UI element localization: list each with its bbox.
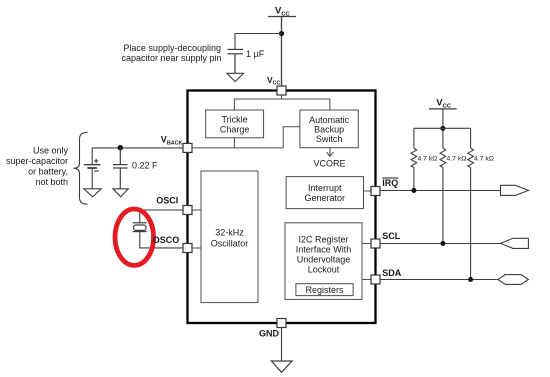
pin OSCI [183,206,192,215]
svg-text:Interface With: Interface With [296,245,352,255]
connector SCL input arrow [501,238,529,248]
crystal Y1 [133,223,147,232]
pin IRQ [371,187,380,196]
svg-text:capacitor near supply pin: capacitor near supply pin [121,53,221,63]
annotation red circle [115,209,154,265]
svg-text:1 µF: 1 µF [246,49,265,59]
svg-text:OSCO: OSCO [153,235,180,245]
svg-text:Registers: Registers [305,285,344,295]
resistor R2 4.7k [440,128,446,243]
block 32-kHz Oscillator [201,171,258,303]
svg-text:IRQ: IRQ [382,178,398,188]
svg-text:SCL: SCL [382,231,401,241]
node VCORE arrow [327,148,334,157]
svg-text:Trickle: Trickle [222,115,248,125]
brace annotation [74,132,88,204]
wire oscillator to OSCO pin [192,247,201,249]
block Automatic Backup Switch [300,110,358,148]
svg-text:4.7 kΩ: 4.7 kΩ [447,156,467,163]
svg-text:or battery,: or battery, [28,167,68,177]
pin GND [277,319,286,328]
ground under battery [84,189,102,197]
wire I2C block to SCL pin [362,243,371,245]
svg-text:Interrupt: Interrupt [308,183,342,193]
wire SDA line [380,279,498,281]
block Registers [296,284,353,296]
svg-text:4.7 kΩ: 4.7 kΩ [418,156,438,163]
wire junction to capacitor C1 [235,34,282,50]
pin SCL [371,239,380,248]
junction dot pull-up bus [440,126,445,131]
resistor R1 4.7k [411,128,417,190]
svg-text:super-capacitor: super-capacitor [6,156,68,166]
connector SDA bidirectional arrow [498,275,529,285]
connector IRQ output arrow [501,185,529,195]
svg-text:Lockout: Lockout [308,265,340,275]
svg-text:Backup: Backup [314,125,344,135]
wire Interrupt Generator to IRQ pin [364,190,372,192]
junction dot SCL/R2 [440,241,445,246]
svg-text:GND: GND [259,328,280,338]
svg-text:not both: not both [35,177,68,187]
svg-text:0.22 F: 0.22 F [132,161,158,171]
svg-text:SDA: SDA [382,268,402,278]
capacitor C1 1uF [228,49,244,73]
ground GND [271,361,292,372]
resistor R3 4.7k [468,128,474,279]
battery B1 [84,148,101,189]
svg-text:Switch: Switch [316,134,343,144]
junction dot SDA/R3 [468,277,473,282]
wire Vcc pin to internal blocks [234,95,281,110]
wire IRQ line [380,190,501,192]
power Vcc top symbol [268,16,296,18]
wire VBACK pin to Automatic Backup Switch [192,127,300,148]
block Interrupt Generator [286,177,363,209]
svg-text:VCORE: VCORE [313,159,345,169]
wire SCL line [380,243,501,245]
svg-text:I2C Register: I2C Register [298,235,348,245]
wire GND pin to ground [281,328,283,362]
ground under C1 [227,73,244,81]
wire oscillator to OSCI pin [192,209,201,211]
svg-text:OSCI: OSCI [156,196,178,206]
svg-text:+: + [94,155,99,165]
power Vcc right symbol [429,108,457,110]
svg-text:−: − [94,166,99,176]
svg-text:Use only: Use only [33,146,69,156]
wire pull-up bus [414,127,471,129]
wire VBACK external [92,147,183,149]
svg-text:Charge: Charge [220,125,250,135]
IC U1 body [188,91,376,324]
svg-text:Undervoltage: Undervoltage [297,255,351,265]
pin OSCO [183,244,192,253]
capacitor C2 0.22F [113,148,128,189]
block I2C Register Interface With Undervoltage Lockout [285,223,362,300]
wire to Automatic Backup Switch [282,99,330,110]
ground under C2 [113,189,128,197]
svg-text:32-kHz: 32-kHz [215,228,244,238]
junction dot [279,31,284,36]
wire Vcc to IC pin [281,17,283,87]
wire OSCI to crystal [140,210,183,223]
wire Vcc to pull-up bus [442,109,444,128]
pin VBACK [183,143,192,152]
svg-text:4.7 kΩ: 4.7 kΩ [474,156,494,163]
wire crystal to OSCO [140,232,183,248]
svg-text:Place supply-decoupling: Place supply-decoupling [123,43,221,53]
wire Trickle Charge to VBACK net [233,138,235,148]
svg-text:Automatic: Automatic [309,115,350,125]
pin VCC [277,86,286,95]
junction dot VBACK net [118,145,123,150]
pin SDA [371,275,380,284]
svg-text:Oscillator: Oscillator [211,239,249,249]
block Trickle Charge [206,110,264,138]
junction dot IRQ/R1 [411,188,416,193]
wire I2C block to SDA pin [362,279,371,281]
svg-text:Generator: Generator [305,193,346,203]
